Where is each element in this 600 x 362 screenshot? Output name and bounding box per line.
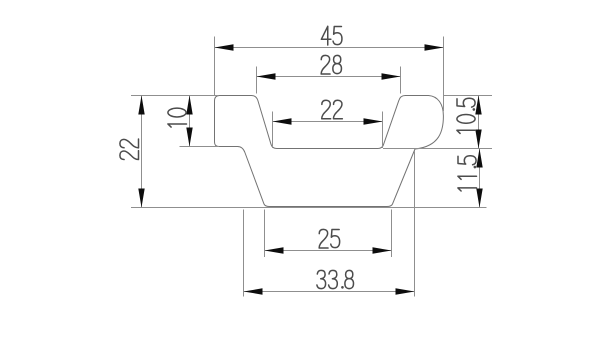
dim 45 text — [321, 26, 342, 45]
dim 22 slot extension left — [272, 112, 274, 149]
dim 22 height line — [141, 96, 143, 208]
extension line mid-right horizontal — [383, 148, 492, 150]
dim 22 slot arrow left — [273, 118, 292, 124]
dim 25 extension right — [391, 210, 393, 258]
dim 33.8 extension left — [243, 210, 245, 297]
dim 11.5 arrow top — [476, 149, 482, 168]
dim 33.8 line — [244, 291, 415, 293]
dim 25 extension left — [264, 210, 266, 258]
dim 10 arrow bottom — [186, 128, 192, 147]
dim 10 arrow top — [186, 96, 192, 115]
dim 22 slot arrow right — [364, 118, 383, 124]
dim 25 text — [319, 229, 340, 248]
dim 10 line — [189, 96, 191, 147]
extension line top-right horizontal — [444, 95, 493, 97]
dim 28 arrow right — [382, 73, 401, 79]
dim 28 arrow left — [257, 73, 276, 79]
dim 10.5 line — [478, 96, 480, 149]
dim 33.8 arrow left — [244, 288, 263, 294]
dim 25 arrow left — [265, 247, 284, 253]
dim 22 slot text — [322, 100, 343, 119]
extension line top-left horizontal — [131, 95, 219, 97]
extension line ear-bottom left horizontal — [180, 146, 220, 148]
dim 45 extension left — [214, 37, 216, 96]
dim 25 line — [265, 250, 392, 252]
dim 11.5 text — [458, 156, 477, 191]
dim 45 extension right — [443, 37, 445, 112]
dim 10.5 text — [457, 98, 476, 133]
dim 28 line — [257, 76, 401, 78]
dim 28 text — [321, 55, 341, 74]
dim 22 height arrow bottom — [138, 189, 144, 208]
dim 45 arrow left — [215, 44, 234, 50]
dim 22 slot line — [273, 121, 383, 123]
dim 10.5 arrow top — [475, 96, 481, 115]
dim 25 arrow right — [373, 247, 392, 253]
dim 10.5 arrow bottom — [475, 130, 481, 149]
dim 33.8 arrow right — [396, 288, 415, 294]
dim 45 arrow right — [425, 44, 444, 50]
dim 45 line — [215, 47, 444, 49]
dim 10 text — [168, 108, 187, 127]
dim 22 height text — [120, 139, 139, 160]
dim 28 extension right — [400, 67, 402, 94]
dim 33.8 extension right — [414, 151, 416, 297]
dim 22 height arrow top — [138, 96, 144, 115]
dim 28 extension left — [256, 67, 258, 94]
extension line bottom horizontal — [131, 207, 487, 209]
dim 22 slot extension right — [382, 112, 384, 149]
dim 11.5 arrow bottom — [476, 189, 482, 208]
dim 11.5 line — [479, 149, 481, 208]
dim 33.8 text — [317, 270, 354, 288]
profile outline — [215, 96, 444, 207]
